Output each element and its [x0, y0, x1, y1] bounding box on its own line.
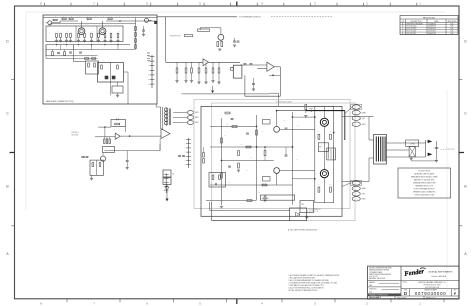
pin — [352, 181, 360, 185]
svg-text:+460V: +460V — [309, 108, 313, 110]
wire: signal run continues — [209, 61, 240, 63]
resistor R1 — [53, 19, 57, 21]
pin — [187, 121, 193, 125]
svg-text:SPEAKER LOAD CONNECTED: SPEAKER LOAD CONNECTED — [413, 191, 436, 194]
svg-text:R: R — [71, 16, 72, 18]
svg-text:R: R — [103, 16, 104, 18]
svg-text:R.H.: R.H. — [450, 31, 454, 33]
resistor R14 — [52, 52, 54, 56]
cathode resistor R32 — [217, 42, 219, 47]
wire: jack bottom bus — [411, 160, 436, 162]
relay coil K1A — [105, 76, 109, 80]
resistor stack R82 — [203, 153, 205, 158]
wire: OT primary top — [342, 116, 374, 118]
resistor — [60, 33, 62, 37]
ground arrow under driver — [212, 86, 214, 91]
resistor — [78, 33, 80, 37]
cathode cap C8 — [79, 51, 82, 53]
speaker jack J3 tip — [428, 153, 433, 157]
wire: preamp to amp feed pair — [160, 107, 162, 129]
resistor R74 — [225, 112, 230, 114]
resistor R68 — [262, 184, 267, 186]
svg-text:WHB: WHB — [362, 112, 366, 114]
svg-text:GRN: GRN — [362, 199, 366, 201]
resistor — [98, 33, 100, 37]
svg-text:1/16 .XX .01 1: 1/16 .XX .01 1 — [369, 276, 378, 278]
heater pin connector P5 (dashed) — [351, 104, 362, 109]
svg-text:Q.A.: Q.A. — [369, 290, 373, 293]
svg-text:TS1: TS1 — [301, 204, 304, 206]
power tube V5 — [320, 118, 328, 126]
pin — [352, 116, 360, 120]
wire: box bottom exit — [127, 83, 129, 105]
junction dots on mid bus — [56, 44, 57, 45]
svg-text:P6: P6 — [319, 147, 321, 149]
junction nodes extra — [264, 146, 265, 147]
wire: feedback loop rectangle — [274, 66, 280, 68]
resistor R15 — [64, 52, 66, 56]
svg-text:C: C — [87, 24, 88, 26]
svg-text:17-SEP-96: 17-SEP-96 — [428, 26, 436, 28]
inner component row box — [46, 26, 123, 42]
svg-text:YEL: YEL — [362, 194, 365, 196]
coupling cap C61 — [228, 165, 231, 167]
svg-text:REFERENCE FULL 117V: REFERENCE FULL 117V — [415, 186, 434, 188]
svg-text:1K5: 1K5 — [283, 120, 286, 122]
ground — [90, 39, 93, 41]
resistor — [91, 33, 93, 37]
B+ rail heavy wire — [306, 110, 345, 112]
wire: preamp out to driver stage — [157, 16, 237, 18]
svg-text:6: 6 — [146, 301, 148, 305]
svg-text:1K5: 1K5 — [329, 131, 332, 133]
lower signal run wire — [182, 93, 270, 95]
resistor — [103, 137, 105, 139]
bias network box — [112, 86, 123, 93]
thermal switch box — [300, 201, 314, 213]
svg-text:R: R — [63, 16, 64, 18]
svg-text:A. PDL USED FOR REV. MODELS ON: A. PDL USED FOR REV. MODELS ONLY — [288, 229, 318, 232]
svg-text:HOT ROD DLX ST 230V: HOT ROD DLX ST 230V — [424, 285, 442, 287]
svg-text:GRN: GRN — [195, 112, 198, 114]
tube V1A internal — [80, 30, 83, 33]
wire: PI out to V6 grid — [280, 170, 315, 172]
wire: upper branch — [98, 126, 111, 128]
coupling cap C62 — [231, 118, 234, 120]
svg-text:DATE: DATE — [434, 20, 438, 23]
svg-text:x: x — [185, 148, 186, 150]
junction node — [119, 20, 120, 21]
resistor R81 — [219, 175, 221, 180]
grid resistor R61 — [232, 126, 237, 128]
tube V1B — [99, 28, 106, 35]
svg-text:R: R — [95, 16, 96, 18]
PI tube V3 — [274, 126, 280, 132]
svg-text:C: C — [73, 24, 74, 26]
ground — [175, 80, 178, 82]
ground — [197, 81, 200, 83]
ground — [83, 39, 86, 41]
fuse F1 box — [163, 170, 171, 177]
zone row ticks, left edge — [11, 78, 14, 80]
resistor R2 — [62, 18, 66, 20]
wire: input to grid — [52, 22, 60, 24]
svg-text:07-NOV-97: 07-NOV-97 — [428, 31, 436, 33]
svg-text:5: 5 — [199, 301, 201, 305]
junction node — [215, 183, 216, 184]
diode D2 — [99, 163, 101, 167]
optocoupler U3 roach — [233, 65, 242, 78]
connector P6 box — [318, 143, 328, 152]
footswitch jack box J4 — [290, 208, 307, 221]
coupling cap C25 — [244, 63, 247, 65]
resistor stack R83 — [203, 159, 205, 164]
junction node — [272, 75, 273, 76]
svg-text:OUTPUT 40W RMS 5% THD: OUTPUT 40W RMS 5% THD — [414, 195, 435, 197]
svg-text:OUTPUT NOTE: OUTPUT NOTE — [418, 170, 431, 172]
rule — [368, 286, 401, 288]
svg-text:1K5: 1K5 — [329, 184, 332, 186]
pin — [187, 116, 193, 120]
svg-text:x: x — [105, 46, 106, 48]
svg-text:x: x — [185, 139, 186, 141]
svg-text:C: C — [464, 112, 467, 116]
svg-text:1K5: 1K5 — [317, 131, 320, 133]
wire: triangle feed down — [159, 139, 161, 151]
ground — [116, 39, 119, 41]
ground — [410, 157, 413, 159]
cap C64 — [285, 127, 288, 129]
svg-text:x: x — [66, 46, 67, 48]
presence pot box — [263, 177, 271, 182]
svg-text:x: x — [185, 164, 186, 166]
svg-text:REVISIONS: REVISIONS — [423, 17, 435, 19]
svg-text:SCALE: NONE: SCALE: NONE — [369, 296, 379, 299]
svg-text:x: x — [185, 160, 186, 162]
resistor R4 — [87, 18, 91, 20]
svg-text:IMPEDANCE SELECTED AT 4 OHMS: IMPEDANCE SELECTED AT 4 OHMS — [411, 175, 437, 178]
aux jack J1B — [145, 18, 149, 22]
svg-text:1K5: 1K5 — [250, 157, 253, 159]
resistor — [135, 45, 137, 49]
tube V1A — [78, 28, 85, 35]
resistor R66 — [221, 138, 223, 143]
junction nodes on rails — [314, 116, 315, 117]
svg-text:R: R — [55, 16, 56, 18]
PI tube V4 — [274, 168, 280, 174]
wire: relay to bias — [117, 82, 119, 86]
resistor — [212, 62, 214, 68]
op-amp U1A — [203, 59, 209, 66]
svg-text:NOTES: UNLESS OTHERWISE NOTED: NOTES: UNLESS OTHERWISE NOTED — [289, 290, 319, 292]
bypass cap C21 — [233, 40, 236, 42]
svg-text:ATTACHED LINE VOLTAGE: ATTACHED LINE VOLTAGE — [414, 172, 433, 175]
wire: drops row1 to row2 — [60, 45, 62, 50]
svg-text:1K5: 1K5 — [246, 170, 249, 172]
svg-text:1K: 1K — [90, 59, 92, 61]
size cell — [409, 289, 411, 296]
pin — [352, 122, 360, 126]
power tube V6 — [320, 170, 328, 178]
svg-text:1K5: 1K5 — [261, 131, 264, 133]
resistor — [56, 33, 58, 37]
svg-text:B: B — [464, 185, 467, 189]
svg-text:1. ALL RESISTORS ARE 1/2 WATT: 1. ALL RESISTORS ARE 1/2 WATT 5% UNLESS … — [289, 274, 341, 277]
wire: mid bus 2 — [46, 49, 136, 51]
svg-text:C: C — [80, 24, 81, 26]
svg-text:1K: 1K — [75, 60, 77, 62]
ground — [142, 33, 145, 35]
power amp input triangle — [161, 129, 170, 139]
svg-text:TO INT SPKR: TO INT SPKR — [445, 149, 455, 151]
wire: top bus of preamp — [43, 17, 157, 19]
resistor R16 — [85, 58, 89, 60]
svg-text:AC: AC — [173, 173, 176, 176]
diode D1 — [92, 163, 94, 167]
svg-text:FROM FX RET: FROM FX RET — [170, 35, 181, 37]
svg-text:1K: 1K — [67, 31, 69, 33]
svg-text:RETURN: RETURN — [72, 134, 79, 136]
ground — [103, 39, 106, 41]
svg-text:ECO 98-0112: ECO 98-0112 — [407, 33, 417, 35]
wire: feedback run lower — [211, 202, 213, 221]
ground — [190, 80, 193, 82]
rule above number row — [401, 288, 459, 290]
cap C42 on loop — [115, 118, 117, 120]
junction node B+ — [311, 110, 313, 112]
pin — [352, 197, 360, 201]
svg-text:C: C — [6, 112, 9, 116]
junction node — [129, 135, 130, 136]
svg-text:SERVICE DIAGRAM, STANDARD 1-: SERVICE DIAGRAM, STANDARD 1-15 — [418, 281, 445, 284]
wire: feedback run upper — [209, 202, 211, 210]
resistor R64 — [238, 163, 240, 168]
screen resistor R71 — [330, 134, 332, 139]
svg-text:0079030000: 0079030000 — [415, 291, 447, 296]
wire: OT primary bottom — [342, 181, 369, 183]
cap C5 — [57, 52, 60, 54]
wire: IC lower run — [105, 150, 160, 152]
svg-text:CAD: CAD — [369, 284, 373, 287]
cap C80 — [435, 147, 439, 149]
bypass cap C22 — [237, 40, 240, 42]
resistor R63 — [238, 151, 240, 156]
cathode cap C7 — [69, 51, 72, 53]
power transformer T1 windings — [165, 108, 167, 127]
svg-text:x: x — [56, 46, 57, 48]
svg-text:INTERNAL SPKR LOAD 8 OHM: INTERNAL SPKR LOAD 8 OHM — [413, 182, 436, 185]
svg-text:5: 5 — [199, 2, 201, 6]
svg-text:R: R — [87, 16, 88, 18]
zone tick marks, bottom edge — [66, 299, 68, 302]
svg-text:7: 7 — [93, 2, 95, 6]
resistor — [205, 62, 207, 68]
svg-text:R.H.: R.H. — [450, 33, 454, 35]
ground — [90, 177, 93, 179]
wire: PI plate rails — [276, 111, 278, 127]
screen resistor block — [327, 148, 336, 160]
wire: tube rails — [314, 106, 316, 203]
svg-text:D: D — [404, 291, 407, 296]
svg-text:MAIN BOARD (PREAMP SECTION): MAIN BOARD (PREAMP SECTION) — [46, 100, 74, 103]
wire: screen rail link — [293, 116, 315, 118]
svg-text:DWG. SIZE: D: DWG. SIZE: D — [397, 297, 408, 299]
ground — [435, 159, 438, 161]
wire: mid bus 3 — [46, 58, 98, 60]
ground — [55, 39, 58, 41]
ground — [237, 169, 240, 171]
resistor — [218, 62, 220, 68]
wire: loop right leg — [124, 126, 126, 132]
input jack J1 — [48, 21, 52, 25]
ground — [211, 80, 214, 82]
svg-text:3: 3 — [314, 301, 316, 305]
dashed continuation wire — [271, 16, 332, 18]
resistor — [84, 33, 86, 37]
ground — [217, 81, 220, 83]
jack sleeve rail — [436, 141, 438, 160]
chassis outline (faint) — [212, 103, 355, 221]
svg-text:1K: 1K — [92, 31, 94, 33]
rule under tolerance cell — [368, 279, 401, 281]
svg-text:GRN: GRN — [195, 122, 198, 124]
svg-text:DO NOT OPERATE WITHOUT: DO NOT OPERATE WITHOUT — [414, 188, 435, 191]
inner box dividers — [75, 26, 77, 42]
svg-text:C: C — [52, 24, 53, 26]
resistor R77 — [247, 200, 252, 202]
cap C63 — [285, 154, 288, 156]
svg-text:3: 3 — [314, 2, 316, 6]
svg-text:1K5: 1K5 — [317, 184, 320, 186]
resistor — [117, 33, 119, 37]
svg-text:C: C — [115, 24, 116, 26]
tube V2 driver triode — [218, 34, 224, 40]
zone row ticks, right edge — [459, 78, 462, 80]
svg-text:ECO 96-0214: ECO 96-0214 — [407, 26, 417, 28]
svg-text:4. VOLTAGES SHOWN WITH 120VAC: 4. VOLTAGES SHOWN WITH 120VAC LINE, NO S… — [289, 282, 338, 285]
approvals dark row — [368, 293, 401, 296]
wire: PI out to V5 grid — [280, 128, 315, 130]
svg-text:TO POWER AMP IN (SHT 2): TO POWER AMP IN (SHT 2) — [239, 16, 261, 19]
wire: V1B out to right edge — [106, 20, 157, 22]
svg-text:UNLESS OTHERWISE SPECIFIED: UNLESS OTHERWISE SPECIFIED — [369, 268, 392, 270]
svg-text:GRN: GRN — [195, 117, 198, 119]
bottom scale row — [368, 295, 459, 297]
svg-text:TITLE:: TITLE: — [403, 282, 408, 284]
heater wiring pins column — [165, 173, 167, 193]
ground — [65, 39, 68, 41]
svg-text:DRAWN:: DRAWN: — [369, 281, 376, 284]
wire: aux rail — [264, 147, 266, 151]
wire: main signal run — [166, 61, 203, 63]
svg-text:C: C — [66, 24, 67, 26]
svg-text:ECO 97-0467: ECO 97-0467 — [407, 31, 417, 33]
cap C46 — [182, 155, 185, 157]
svg-text:1K5: 1K5 — [240, 144, 243, 146]
svg-text:x: x — [148, 61, 149, 63]
dashed label INT SPKR — [441, 148, 444, 150]
lower heater connector (dashed) — [351, 180, 362, 185]
plate resistor stack — [135, 18, 137, 50]
svg-text:7: 7 — [93, 301, 95, 305]
cap C41 — [86, 156, 89, 158]
svg-text:C: C — [94, 24, 95, 26]
output note box — [398, 168, 451, 198]
wire: drop to tone stack — [72, 45, 74, 62]
screen resistor R70 — [318, 134, 320, 139]
svg-text:x: x — [185, 152, 186, 154]
chassis ground arrow — [165, 199, 168, 202]
coupling cap C26 — [250, 63, 253, 65]
resistor R76 — [264, 196, 266, 201]
faint inner margin line, left — [25, 12, 27, 210]
grid resistor R30 — [198, 29, 210, 31]
cap C40 — [82, 156, 85, 158]
junction nodes — [256, 146, 257, 147]
svg-text:R.H.: R.H. — [450, 26, 454, 28]
impedance switch S2 (crossed box) — [409, 147, 415, 157]
wire: relay feed vertical — [110, 82, 112, 96]
ground — [126, 166, 129, 168]
svg-text:R: R — [119, 16, 120, 18]
wire: tubes to lower pins — [342, 183, 351, 187]
svg-text:Corona, CA U.S.A.: Corona, CA U.S.A. — [431, 275, 446, 278]
preamp board enclosure box — [43, 15, 157, 104]
wire: bus to relay — [46, 55, 98, 57]
ground — [252, 88, 255, 90]
resistor — [176, 62, 178, 68]
svg-text:GRN: GRN — [362, 124, 366, 126]
svg-text:x: x — [185, 143, 186, 145]
svg-text:CHECKED:: CHECKED: — [369, 288, 377, 290]
svg-text:x: x — [148, 70, 149, 72]
resistor — [104, 33, 106, 37]
svg-text:x: x — [78, 46, 79, 48]
wire: tone stack link — [73, 60, 85, 62]
title block column divider — [400, 266, 402, 296]
svg-text:SHEET 1 OF 2: SHEET 1 OF 2 — [426, 297, 436, 299]
tube V1B internal — [101, 30, 104, 33]
resistor — [70, 33, 72, 37]
svg-text:A: A — [6, 252, 9, 256]
header pads column 2 — [147, 52, 150, 54]
pin — [187, 111, 193, 115]
dropping resistor R60 — [305, 105, 307, 110]
ground — [218, 48, 221, 50]
svg-text:1: 1 — [419, 2, 421, 6]
svg-text:1K: 1K — [119, 31, 121, 33]
svg-text:R: R — [127, 16, 128, 18]
fender script logo — [404, 268, 425, 278]
svg-text:D: D — [6, 40, 9, 44]
svg-text:A: A — [464, 252, 467, 256]
impedance label box — [406, 140, 419, 147]
svg-text:R.H.: R.H. — [450, 23, 454, 25]
resistor — [135, 39, 137, 43]
ground — [233, 44, 236, 46]
wire: B+ to pilot — [345, 107, 352, 114]
svg-text:8: 8 — [40, 301, 42, 305]
tone stack box — [86, 61, 99, 74]
svg-text:R.H.: R.H. — [450, 28, 454, 30]
resistor R21 — [101, 65, 103, 69]
resistor — [135, 27, 137, 31]
svg-text:1K5: 1K5 — [297, 125, 300, 127]
resistor R3 — [69, 18, 73, 20]
svg-text:DESCRIPTION: DESCRIPTION — [411, 21, 423, 23]
title block outer frame — [368, 266, 459, 299]
svg-text:1K: 1K — [106, 31, 108, 33]
